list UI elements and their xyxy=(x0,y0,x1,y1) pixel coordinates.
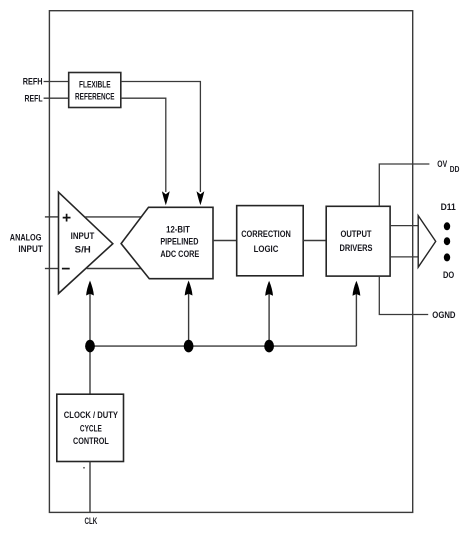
wire: correction logic to output drivers xyxy=(303,240,326,242)
wire: ADC core to correction logic xyxy=(213,240,237,242)
svg-text:ANALOG: ANALOG xyxy=(10,232,42,243)
data bus arrow xyxy=(418,216,436,268)
arrowhead: clock into output drivers xyxy=(353,281,361,296)
wire: S/H to ADC core top xyxy=(85,216,141,218)
wire: clock to output drivers xyxy=(355,283,357,347)
wire: clock to ADC core xyxy=(188,283,190,347)
junction dot: clock at ADC branch xyxy=(184,340,194,353)
svg-text:LOGIC: LOGIC xyxy=(254,244,279,255)
REFH label xyxy=(23,77,43,88)
svg-text:DO: DO xyxy=(443,270,454,281)
flexible reference block xyxy=(69,73,121,108)
svg-text:ADC CORE: ADC CORE xyxy=(160,249,199,260)
wire: CLK input xyxy=(89,462,91,513)
svg-text:REFERENCE: REFERENCE xyxy=(75,91,115,102)
svg-text:OGND: OGND xyxy=(432,310,455,321)
svg-text:CLK: CLK xyxy=(85,516,98,527)
stray mark below clock block xyxy=(83,467,85,469)
wire: OGND xyxy=(379,276,428,314)
junction dot: clock at correction logic branch xyxy=(264,340,274,353)
ANALOG INPUT label xyxy=(10,232,43,255)
svg-text:INPUT: INPUT xyxy=(18,244,43,255)
svg-text:REFH: REFH xyxy=(23,77,43,88)
arrowhead: clock into ADC core xyxy=(185,281,193,296)
svg-text:FLEXIBLE: FLEXIBLE xyxy=(79,80,111,91)
svg-text:CYCLE: CYCLE xyxy=(80,424,102,435)
data bus dots xyxy=(444,222,450,261)
wire: reference REFL output to ADC core xyxy=(121,98,166,192)
svg-text:PIPELINED: PIPELINED xyxy=(160,237,198,248)
svg-text:D11: D11 xyxy=(441,202,457,213)
svg-text:INPUT: INPUT xyxy=(71,231,95,242)
clock / duty cycle control block xyxy=(57,394,124,461)
D11 label xyxy=(441,202,457,213)
12-bit pipelined ADC core block xyxy=(121,207,213,278)
svg-text:REFL: REFL xyxy=(25,93,43,104)
REFL pin wire xyxy=(44,97,69,99)
wire: clock to correction logic xyxy=(268,283,270,347)
input S/H amplifier xyxy=(59,192,113,293)
svg-text:CONTROL: CONTROL xyxy=(73,436,109,447)
arrowhead: clock into correction logic xyxy=(265,281,273,296)
svg-text:OUTPUT: OUTPUT xyxy=(340,229,371,240)
REFH pin wire xyxy=(44,81,69,83)
OVDD label xyxy=(437,159,459,174)
OGND label xyxy=(432,310,455,321)
wire: analog input + pin xyxy=(45,216,59,218)
correction logic block xyxy=(237,206,304,276)
REFL label xyxy=(25,93,43,104)
arrowhead: clock into S/H xyxy=(86,281,94,296)
wire: analog input - pin xyxy=(45,268,59,270)
arrowhead: REFH into ADC core xyxy=(197,191,205,205)
wire: OVDD supply xyxy=(379,164,429,206)
wire: S/H to ADC core bottom xyxy=(87,268,142,270)
output drivers block xyxy=(326,206,390,276)
CLK label xyxy=(85,516,98,527)
wire: reference REFH output to ADC core xyxy=(121,82,201,193)
svg-text:CORRECTION: CORRECTION xyxy=(241,229,291,240)
svg-text:DRIVERS: DRIVERS xyxy=(340,243,373,254)
junction dot: clock at S/H branch xyxy=(85,340,95,353)
wire: data bus upper line xyxy=(390,225,418,227)
svg-text:CLOCK / DUTY: CLOCK / DUTY xyxy=(64,410,119,421)
svg-text:12-BIT: 12-BIT xyxy=(166,224,190,235)
arrowhead: REFL into ADC core xyxy=(162,191,170,205)
svg-text:DD: DD xyxy=(450,165,460,174)
wire: data bus lower line xyxy=(390,256,418,258)
chip boundary xyxy=(49,11,412,513)
wire: clock vertical trunk xyxy=(89,283,91,395)
D0 label xyxy=(443,270,454,281)
svg-text:S/H: S/H xyxy=(75,245,91,256)
svg-text:OV: OV xyxy=(437,159,447,170)
wire: clock distribution horizontal xyxy=(90,345,356,347)
